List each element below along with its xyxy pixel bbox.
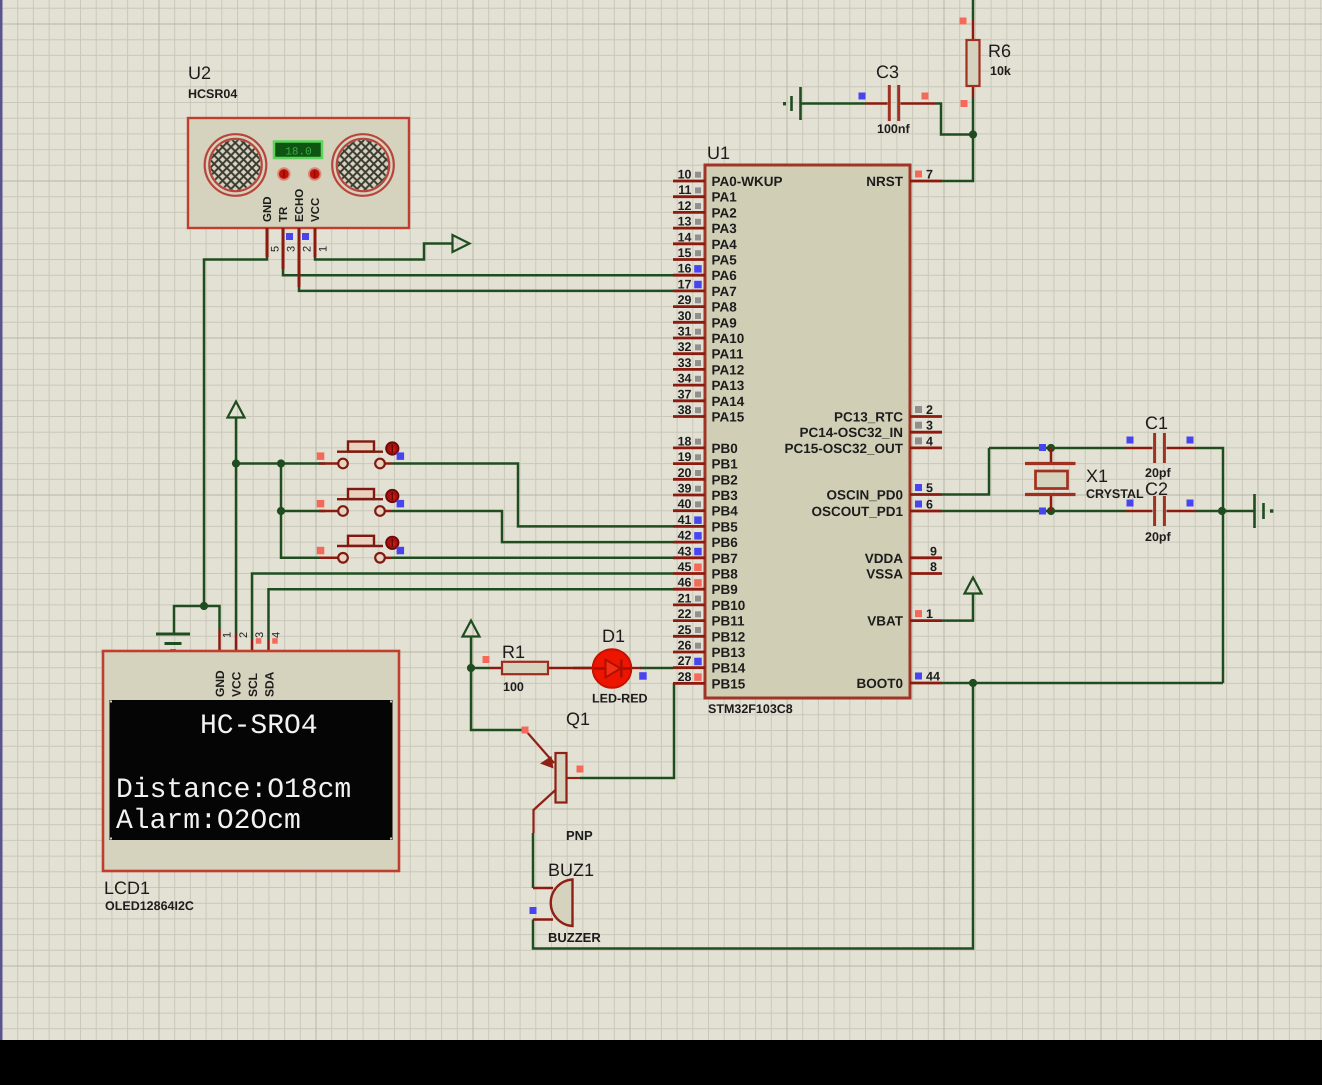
svg-text:45: 45 xyxy=(678,560,692,574)
OLED display LCD1 xyxy=(103,651,399,871)
push button 3 xyxy=(319,536,398,563)
wire junction to R1 left lead xyxy=(471,667,489,670)
junction node BOOT0 / buzzer return xyxy=(969,679,977,687)
U1 pin 25 (PB12) xyxy=(673,623,745,645)
svg-text:27: 27 xyxy=(678,654,692,668)
wire Q1 base to U1 PB15 pin28 xyxy=(580,683,674,778)
handle U2 pin3 (blue) xyxy=(286,233,293,240)
svg-text:37: 37 xyxy=(678,387,692,401)
buzzer BUZ1 xyxy=(533,880,573,927)
svg-text:26: 26 xyxy=(678,639,692,653)
svg-text:4: 4 xyxy=(271,632,283,638)
handle R1 left (red) xyxy=(483,656,490,663)
svg-text:BUZZER: BUZZER xyxy=(548,930,601,945)
U2 pin ECHO stub (pin 2) xyxy=(298,228,301,287)
handle X1 top (blue) xyxy=(1039,444,1046,451)
junction node on NRST net xyxy=(969,130,977,138)
svg-text:22: 22 xyxy=(678,607,692,621)
U1 pin 42 (PB6) xyxy=(673,529,738,551)
svg-text:D1: D1 xyxy=(602,626,625,646)
svg-text:PA6: PA6 xyxy=(712,268,738,283)
wire button3 right to U1 PB7 pin43 xyxy=(392,557,673,560)
svg-text:13: 13 xyxy=(678,215,692,229)
U1 pin 44 (BOOT0) xyxy=(856,670,942,692)
svg-text:TR: TR xyxy=(278,206,290,222)
U1 pin 10 (PA0-WKUP) xyxy=(673,168,783,190)
capacitor C3 xyxy=(866,85,936,121)
U1 pin 7 (NRST) xyxy=(866,168,942,190)
svg-text:8: 8 xyxy=(930,560,937,574)
handle Q1 base (red) xyxy=(577,766,584,773)
wire SDA: LCD pin4 to U1 PB9 pin46 xyxy=(269,589,674,640)
svg-text:BUZ1: BUZ1 xyxy=(548,860,594,880)
svg-text:32: 32 xyxy=(678,340,692,354)
svg-text:Distance:O18cm: Distance:O18cm xyxy=(116,775,351,806)
svg-text:HCSR04: HCSR04 xyxy=(188,87,237,101)
svg-text:1: 1 xyxy=(318,246,330,252)
ultrasonic sensor U2 HCSR04 xyxy=(188,118,409,228)
svg-text:OSCIN_PD0: OSCIN_PD0 xyxy=(826,488,903,503)
svg-text:PB14: PB14 xyxy=(712,661,746,676)
U1 pin 4 (PC15-OSC32_OUT) xyxy=(784,434,942,456)
handle BUZ1 (blue) xyxy=(530,907,537,914)
capacitor C1 xyxy=(1125,433,1195,463)
svg-text:40: 40 xyxy=(678,497,692,511)
U1 pin 34 (PA13) xyxy=(673,372,745,394)
resistor R1 xyxy=(489,662,573,674)
capacitor C2 xyxy=(1125,496,1195,526)
U2 pin VCC stub (pin 1) xyxy=(314,228,317,257)
handle LCD pin4 (red) xyxy=(272,638,278,644)
svg-text:30: 30 xyxy=(678,309,692,323)
svg-text:LED-RED: LED-RED xyxy=(592,692,648,706)
svg-text:PA4: PA4 xyxy=(712,237,738,252)
wire VCC junction to button 1 left and down to LCD VCC pin xyxy=(236,462,325,465)
junction node X1 top xyxy=(1047,444,1055,452)
handle R6 top (red) xyxy=(960,18,967,25)
wire SCL: LCD pin3 to U1 PB8 pin45 xyxy=(252,574,673,641)
svg-text:PB13: PB13 xyxy=(712,645,746,660)
svg-text:PB15: PB15 xyxy=(712,676,746,691)
handle C3 left (blue) xyxy=(859,93,866,100)
svg-text:34: 34 xyxy=(678,372,692,386)
wire junction down to Q1 emitter xyxy=(471,668,523,730)
svg-text:6: 6 xyxy=(926,498,933,512)
junction node VCC rail xyxy=(232,459,240,467)
push button 1 xyxy=(319,442,398,469)
handle button 2 left (red) xyxy=(317,500,325,508)
svg-text:2: 2 xyxy=(926,403,933,417)
svg-text:X1: X1 xyxy=(1086,466,1108,486)
svg-text:3: 3 xyxy=(926,419,933,433)
handle button 3 left (red) xyxy=(317,547,325,555)
U1 pin 30 (PA9) xyxy=(673,309,737,331)
U2 pin GND stub (pin 5) xyxy=(266,228,269,257)
handle X1 bottom (blue) xyxy=(1039,508,1046,515)
microcontroller U1 STM32F103C8 body xyxy=(705,165,910,698)
wire R6 top to sheet top xyxy=(972,0,975,19)
svg-text:100nf: 100nf xyxy=(877,122,910,136)
svg-text:PB9: PB9 xyxy=(712,582,738,597)
svg-text:3: 3 xyxy=(286,246,298,252)
handle C2 left (blue) xyxy=(1127,500,1134,507)
svg-text:NRST: NRST xyxy=(866,174,904,189)
svg-text:1: 1 xyxy=(222,632,234,638)
svg-text:PB10: PB10 xyxy=(712,598,746,613)
wire D1 cathode to U1 PB14 pin27 xyxy=(640,667,673,670)
handle C2 right (blue) xyxy=(1187,500,1194,507)
svg-text:12: 12 xyxy=(678,199,692,213)
U1 pin 18 (PB0) xyxy=(673,434,738,456)
svg-text:C3: C3 xyxy=(876,62,899,82)
svg-text:C2: C2 xyxy=(1145,479,1168,499)
U1 pin 3 (PC14-OSC32_IN) xyxy=(799,419,942,441)
svg-text:7: 7 xyxy=(926,168,933,182)
junction node C2 right / ground column xyxy=(1218,507,1226,515)
svg-text:Alarm:O2Ocm: Alarm:O2Ocm xyxy=(116,806,301,837)
handle C3 right (red) xyxy=(922,93,929,100)
svg-text:43: 43 xyxy=(678,544,692,558)
svg-text:PB3: PB3 xyxy=(712,488,739,503)
svg-text:21: 21 xyxy=(678,591,692,605)
handle R6 bottom (red) xyxy=(961,100,968,107)
LED D1 (LED-RED) xyxy=(573,649,641,688)
svg-text:PNP: PNP xyxy=(566,828,593,843)
wire GND junction to ground symbol xyxy=(174,606,204,634)
svg-text:18.0: 18.0 xyxy=(285,147,311,159)
wire ground to C3 left lead xyxy=(800,102,866,105)
wire U1 OSCOUT_PD1 pin6 to crystal bottom row / C2 xyxy=(942,510,1125,513)
U1 pin 14 (PA4) xyxy=(673,230,737,252)
U2 pin TR stub (pin 3) xyxy=(282,228,285,269)
junction node button column top xyxy=(277,459,285,467)
U1 pin 26 (PB13) xyxy=(673,639,746,661)
svg-text:28: 28 xyxy=(678,670,692,684)
svg-text:9: 9 xyxy=(930,544,937,558)
U1 pin 8 (VSSA) xyxy=(866,560,942,582)
U1 pin 28 (PB15) xyxy=(673,670,746,692)
handle C1 right (blue) xyxy=(1187,437,1194,444)
U1 pin 43 (PB7) xyxy=(673,544,738,566)
junction node GND near LCD xyxy=(200,602,208,610)
svg-text:PA9: PA9 xyxy=(712,315,737,330)
svg-text:10: 10 xyxy=(678,168,692,182)
wire VCC rail from power arrow to HCSR04 GND column (net at x=204) xyxy=(204,257,267,606)
svg-text:PB5: PB5 xyxy=(712,519,739,534)
U1 pin 22 (PB11) xyxy=(673,607,745,629)
U1 pin 32 (PA11) xyxy=(673,340,744,362)
svg-text:PA7: PA7 xyxy=(712,284,737,299)
wire GND column to LCD GND pin1 xyxy=(204,606,220,630)
U1 pin 11 (PA1) xyxy=(673,183,737,205)
svg-text:5: 5 xyxy=(926,481,933,495)
svg-text:42: 42 xyxy=(678,529,692,543)
U1 pin 15 (PA5) xyxy=(673,246,737,268)
U1 pin 16 (PA6) xyxy=(673,262,737,284)
svg-text:LCD1: LCD1 xyxy=(104,878,150,898)
svg-text:HC-SRO4: HC-SRO4 xyxy=(200,711,318,742)
svg-text:OSCOUT_PD1: OSCOUT_PD1 xyxy=(811,504,903,519)
wire C1 right to ground column xyxy=(1195,448,1223,683)
handle button 1 right (blue) xyxy=(397,452,405,460)
svg-text:PA3: PA3 xyxy=(712,221,738,236)
wire buzzer return: BOOT0 junction down, left and up to BUZ1 bottom xyxy=(533,683,973,949)
svg-text:PA11: PA11 xyxy=(712,347,745,362)
svg-text:33: 33 xyxy=(678,356,692,370)
svg-text:VCC: VCC xyxy=(310,198,322,222)
svg-text:19: 19 xyxy=(678,450,692,464)
U1 pin 21 (PB10) xyxy=(673,591,745,613)
junction node X1 bottom xyxy=(1047,507,1055,515)
U1 pin 17 (PA7) xyxy=(673,277,737,299)
svg-text:18: 18 xyxy=(678,434,692,448)
svg-text:20pf: 20pf xyxy=(1145,466,1172,480)
svg-text:PC14-OSC32_IN: PC14-OSC32_IN xyxy=(799,425,903,440)
svg-text:SCL: SCL xyxy=(246,673,260,697)
wire VBAT pin1 to power arrow stem xyxy=(942,593,973,621)
U1 pin 2 (PC13_RTC) xyxy=(834,403,942,425)
LCD pin 3 stub (SCL) xyxy=(251,640,254,651)
svg-text:15: 15 xyxy=(678,246,692,260)
U1 pin 31 (PA10) xyxy=(673,325,744,347)
svg-text:CRYSTAL: CRYSTAL xyxy=(1086,487,1144,501)
wire U1 OSCIN_PD0 pin5 to crystal top row xyxy=(942,448,989,495)
wire NRST net: R6 bottom to U1 NRST pin 7 xyxy=(942,97,973,181)
wire C2 right to ground symbol xyxy=(1195,510,1254,513)
svg-text:41: 41 xyxy=(678,513,692,527)
U1 pin 27 (PB14) xyxy=(673,654,746,676)
svg-text:44: 44 xyxy=(926,670,940,684)
svg-text:PA10: PA10 xyxy=(712,331,745,346)
ground symbol (C3, pointing left) xyxy=(799,87,802,120)
svg-text:16: 16 xyxy=(678,262,692,276)
handle C1 left (blue) xyxy=(1127,437,1134,444)
svg-text:20pf: 20pf xyxy=(1145,530,1172,544)
svg-text:PA5: PA5 xyxy=(712,253,738,268)
svg-text:PA15: PA15 xyxy=(712,410,745,425)
svg-text:STM32F103C8: STM32F103C8 xyxy=(708,702,793,716)
svg-text:OLED12864I2C: OLED12864I2C xyxy=(105,899,194,913)
wire R1 right to D1 anode xyxy=(573,667,595,670)
svg-text:U1: U1 xyxy=(707,143,730,163)
junction node R1 left xyxy=(467,664,475,672)
svg-text:38: 38 xyxy=(678,403,692,417)
svg-text:PA2: PA2 xyxy=(712,205,737,220)
svg-text:PB2: PB2 xyxy=(712,472,738,487)
svg-text:R6: R6 xyxy=(988,41,1011,61)
U1 pin 37 (PA14) xyxy=(673,387,745,409)
wire TR (U2 pin3) to U1 PA6 xyxy=(283,269,673,275)
U1 pin 5 (OSCIN_PD0) xyxy=(826,481,942,503)
power arrow (button/LCD VCC) xyxy=(228,402,245,418)
handle button 2 right (blue) xyxy=(397,500,405,508)
wire BOOT0 row: U1 pin44 to ground column xyxy=(942,682,1223,685)
resistor R6 xyxy=(967,19,980,97)
power arrow (VBAT) xyxy=(965,578,982,594)
svg-text:GND: GND xyxy=(262,196,274,222)
ground symbol (LCD) xyxy=(156,633,190,636)
svg-text:SDA: SDA xyxy=(263,671,277,697)
U1 pin 12 (PA2) xyxy=(673,199,737,221)
svg-text:39: 39 xyxy=(678,482,692,496)
U1 pin 20 (PB2) xyxy=(673,466,738,488)
svg-text:PA8: PA8 xyxy=(712,300,738,315)
handle button 3 right (blue) xyxy=(397,547,405,555)
svg-text:ECHO: ECHO xyxy=(294,189,306,222)
handle U2 pin2 (blue) xyxy=(302,233,309,240)
wire power arrow stem to R1 left junction xyxy=(470,636,473,668)
svg-text:17: 17 xyxy=(678,277,692,291)
U1 pin 38 (PA15) xyxy=(673,403,745,425)
svg-text:U2: U2 xyxy=(188,63,211,83)
svg-text:3: 3 xyxy=(254,632,266,638)
svg-text:1: 1 xyxy=(926,607,933,621)
svg-text:C1: C1 xyxy=(1145,413,1168,433)
LCD pin 2 stub (VCC) xyxy=(235,634,238,651)
U1 pin 45 (PB8) xyxy=(673,560,738,582)
handle button 1 left (red) xyxy=(317,452,325,460)
U1 pin 9 (VDDA) xyxy=(865,544,942,566)
svg-text:29: 29 xyxy=(678,293,692,307)
svg-text:BOOT0: BOOT0 xyxy=(856,676,903,691)
svg-text:PB7: PB7 xyxy=(712,551,738,566)
svg-text:PB6: PB6 xyxy=(712,535,739,550)
wire Q1 collector to BUZ1 top xyxy=(532,833,535,888)
wire button1 right to U1 PB5 pin41 xyxy=(392,464,673,527)
svg-text:4: 4 xyxy=(926,434,933,448)
U1 pin 39 (PB3) xyxy=(673,482,738,504)
wire crystal top row to C1 left xyxy=(989,447,1125,450)
svg-text:PC15-OSC32_OUT: PC15-OSC32_OUT xyxy=(784,441,903,456)
svg-text:GND: GND xyxy=(213,670,227,697)
power arrow (R1/LED supply) xyxy=(463,621,480,637)
U1 pin 29 (PA8) xyxy=(673,293,737,315)
handle D1 (blue) xyxy=(639,672,647,680)
svg-text:46: 46 xyxy=(678,576,692,590)
LCD pin 4 stub (SDA) xyxy=(267,640,270,651)
U1 pin 19 (PB1) xyxy=(673,450,738,472)
svg-text:PA1: PA1 xyxy=(712,190,738,205)
svg-text:2: 2 xyxy=(238,632,250,638)
junction node button column middle xyxy=(277,507,285,515)
wire ECHO (U2 pin2) to U1 PA7 xyxy=(299,287,673,291)
svg-text:PA14: PA14 xyxy=(712,394,745,409)
U1 pin 6 (OSCOUT_PD1) xyxy=(811,498,942,520)
crystal X1 xyxy=(1025,448,1076,511)
svg-text:PB8: PB8 xyxy=(712,567,739,582)
wire button column to button 2 left xyxy=(281,510,325,513)
svg-text:VBAT: VBAT xyxy=(867,614,904,629)
svg-text:VDDA: VDDA xyxy=(865,551,904,566)
svg-text:VSSA: VSSA xyxy=(866,567,903,582)
svg-text:PA12: PA12 xyxy=(712,362,745,377)
wire C3 right lead to NRST net xyxy=(936,104,971,135)
svg-text:10k: 10k xyxy=(990,64,1011,78)
svg-text:R1: R1 xyxy=(502,642,525,662)
wire power arrow stem down to VCC junction xyxy=(235,417,238,464)
svg-text:PA13: PA13 xyxy=(712,378,745,393)
svg-text:31: 31 xyxy=(678,325,692,339)
svg-text:PB0: PB0 xyxy=(712,441,738,456)
handle Q1 emitter (red) xyxy=(522,727,529,734)
svg-text:PB11: PB11 xyxy=(712,614,746,629)
svg-text:PA0-WKUP: PA0-WKUP xyxy=(712,174,783,189)
U1 pin 41 (PB5) xyxy=(673,513,738,535)
wire VCC (U2 pin1) to terminal arrow xyxy=(315,244,452,260)
terminal arrow (right) on U2 VCC net xyxy=(453,235,470,252)
U1 pin 1 (VBAT) xyxy=(867,607,942,629)
svg-text:PC13_RTC: PC13_RTC xyxy=(834,410,903,425)
svg-text:VCC: VCC xyxy=(230,671,244,697)
handle LCD pin3 (red) xyxy=(256,638,261,644)
svg-text:25: 25 xyxy=(678,623,692,637)
svg-text:14: 14 xyxy=(678,230,692,244)
svg-text:PB12: PB12 xyxy=(712,629,746,644)
U1 pin 33 (PA12) xyxy=(673,356,744,378)
svg-text:Q1: Q1 xyxy=(566,709,590,729)
ground symbol (crystal net, pointing right) xyxy=(1253,494,1256,528)
U1 pin 40 (PB4) xyxy=(673,497,738,519)
U1 pin 13 (PA3) xyxy=(673,215,737,237)
wire button2 right to U1 PB6 pin42 xyxy=(392,511,673,542)
svg-text:11: 11 xyxy=(678,183,691,197)
svg-text:2: 2 xyxy=(302,246,314,252)
svg-text:PB1: PB1 xyxy=(712,457,739,472)
LCD pin 1 stub (GND) xyxy=(218,630,221,651)
push button 2 xyxy=(319,489,398,516)
svg-text:20: 20 xyxy=(678,466,692,480)
wire button column: button1 row down to button3 row xyxy=(281,464,325,558)
svg-text:PB4: PB4 xyxy=(712,504,739,519)
svg-text:100: 100 xyxy=(503,680,524,694)
U1 pin 46 (PB9) xyxy=(673,576,738,598)
transistor Q1 (PNP) xyxy=(526,731,580,833)
svg-text:5: 5 xyxy=(270,246,282,252)
